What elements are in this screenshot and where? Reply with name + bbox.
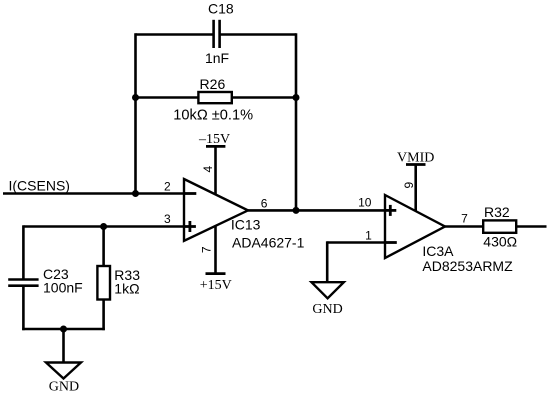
op-amp U IC3A (385, 195, 445, 258)
capacitor C23 (8, 280, 38, 286)
node junction bottom / GND stem (60, 326, 67, 333)
wire pin 1 horizontal (327, 241, 385, 244)
wire C23 branch vertical upper (22, 225, 25, 279)
svg-text:6: 6 (261, 197, 268, 211)
svg-text:1nF: 1nF (205, 50, 229, 66)
node junction pin3 / R33 (100, 223, 107, 230)
op-amp IC13 plus sign (184, 221, 196, 232)
ground symbol right (312, 282, 344, 298)
svg-text:+15V: +15V (200, 278, 232, 293)
svg-text:IC3A: IC3A (422, 243, 454, 259)
svg-text:7: 7 (200, 246, 214, 253)
node junction left feedback / R26 (132, 94, 139, 101)
op-amp IC3A plus sign (384, 205, 396, 216)
svg-text:10: 10 (358, 196, 372, 210)
resistor R32 (483, 220, 516, 232)
ground symbol left (46, 363, 81, 379)
capacitor C18 (214, 20, 220, 48)
op-amp IC13 minus sign (184, 192, 196, 195)
node junction input / left feedback (132, 190, 139, 197)
svg-text:GND: GND (312, 302, 342, 317)
power -15V bar (206, 145, 225, 148)
power VMID bar (406, 163, 426, 166)
svg-text:R32: R32 (484, 204, 510, 220)
svg-text:1: 1 (365, 229, 372, 243)
svg-text:100nF: 100nF (43, 279, 83, 295)
wire IC13 output to IC3A input (248, 209, 385, 212)
wire pin 7 stem (214, 226, 217, 274)
wire pin 9 stem (414, 165, 417, 211)
svg-text:IC13: IC13 (231, 217, 261, 233)
resistor R33 (97, 266, 110, 300)
wire right feedback vertical (295, 33, 298, 210)
svg-text:C18: C18 (208, 1, 234, 17)
wire R26 row right (232, 96, 296, 99)
wire GND stem left (62, 329, 65, 362)
svg-text:1kΩ: 1kΩ (114, 281, 139, 297)
svg-text:GND: GND (49, 380, 79, 395)
svg-text:7: 7 (461, 212, 468, 226)
wire R33 branch vertical upper (102, 227, 105, 267)
op-amp U IC13 (184, 179, 248, 241)
svg-text:VMID: VMID (397, 150, 434, 165)
wire pin 4 stem (214, 146, 217, 194)
svg-text:ADA4627-1: ADA4627-1 (232, 235, 305, 251)
resistor R26 (198, 92, 231, 103)
node junction output / right feedback (293, 207, 300, 214)
svg-text:2: 2 (164, 180, 171, 194)
wire bottom joining C23 and R33 (22, 328, 105, 331)
wire C23 branch vertical lower (22, 286, 25, 331)
power +15V bar (206, 272, 226, 275)
wire top feedback segment left of C18 (136, 33, 213, 36)
svg-text:430Ω: 430Ω (483, 233, 517, 249)
svg-text:4: 4 (201, 166, 215, 173)
svg-text:10kΩ ±0.1%: 10kΩ ±0.1% (173, 107, 253, 123)
wire pin 1 GND vertical (326, 241, 329, 282)
node junction right feedback / R26 (293, 94, 300, 101)
svg-text:9: 9 (402, 182, 416, 189)
wire left feedback vertical (134, 33, 137, 194)
wire pin 3 input (23, 225, 184, 228)
wire R33 branch vertical lower (102, 300, 105, 331)
wire IC3A output to R32 (445, 225, 483, 228)
svg-text:I(CSENS): I(CSENS) (9, 177, 70, 193)
svg-text:R26: R26 (200, 76, 226, 92)
wire input to pin 2 (3, 192, 184, 195)
svg-text:–15V: –15V (198, 132, 230, 147)
wire R26 row left (136, 96, 199, 99)
op-amp IC3A minus sign (384, 241, 397, 244)
svg-text:3: 3 (164, 212, 171, 226)
wire R32 to edge (516, 225, 546, 228)
svg-text:AD8253ARMZ: AD8253ARMZ (422, 258, 513, 274)
wire top feedback segment right of C18 (221, 33, 297, 36)
